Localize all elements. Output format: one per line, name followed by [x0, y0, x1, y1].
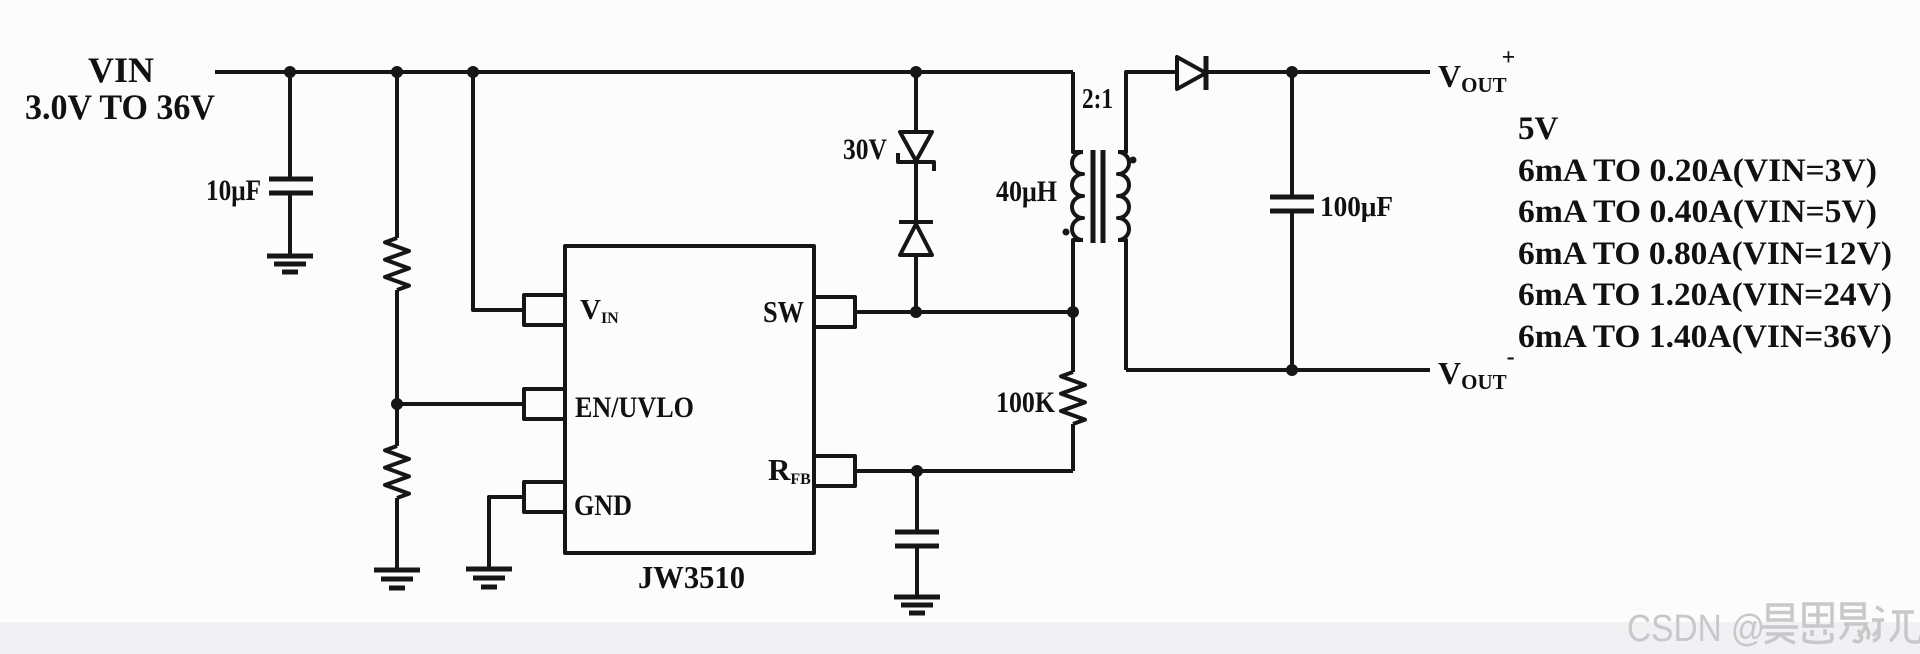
- wire RFB cap branch: [915, 471, 919, 531]
- svg-text:6mA TO 0.80A(VIN=12V): 6mA TO 0.80A(VIN=12V): [1518, 236, 1892, 272]
- svg-text:CSDN @: CSDN @: [1627, 608, 1765, 650]
- wire primary top: [1073, 72, 1083, 152]
- wire R1 to EN node: [395, 290, 399, 404]
- node dot primary/SW: [1067, 306, 1079, 318]
- pin VIN: [524, 295, 565, 325]
- zener D1 30V triangle: [900, 132, 932, 161]
- wire between diodes: [914, 162, 918, 222]
- wire secondary bottom: [1118, 240, 1126, 370]
- node dot R1/top: [391, 66, 403, 78]
- op IC U1 JW3510 box: [565, 246, 814, 553]
- svg-text:6mA TO 1.20A(VIN=24V): 6mA TO 1.20A(VIN=24V): [1518, 277, 1892, 313]
- resistor R1 upper divider: [385, 238, 409, 290]
- node dot VOUT+ cap: [1286, 66, 1298, 78]
- wire 100uF branch bottom: [1290, 211, 1294, 370]
- polarity dot primary: [1063, 229, 1070, 236]
- svg-text:SW: SW: [763, 294, 804, 329]
- wire divider branch top: [395, 70, 399, 238]
- wire diode to VOUT+: [1206, 70, 1430, 74]
- wire 100uF branch top: [1290, 72, 1294, 196]
- node dot C1/top: [284, 66, 296, 78]
- ground under C3: [894, 597, 940, 613]
- svg-text:6mA TO 0.40A(VIN=5V): 6mA TO 0.40A(VIN=5V): [1518, 194, 1877, 230]
- wire 10uF branch bottom: [288, 193, 292, 254]
- wire 100K branch: [1071, 312, 1075, 372]
- wire top rail VIN: [215, 70, 1073, 74]
- svg-text:GND: GND: [574, 489, 632, 522]
- wire EN/UVLO horizontal: [397, 402, 524, 406]
- svg-text:5V: 5V: [1518, 111, 1559, 147]
- resistor R3 100K: [1061, 372, 1085, 424]
- pin SW: [814, 297, 855, 327]
- node dot RFB cap: [911, 465, 923, 477]
- ground under R2: [374, 570, 420, 588]
- ground under GND pin: [466, 569, 512, 587]
- svg-text:40μH: 40μH: [996, 175, 1057, 208]
- svg-text:6mA TO 0.20A(VIN=3V): 6mA TO 0.20A(VIN=3V): [1518, 153, 1877, 189]
- wire bottom VOUT- rail: [1126, 368, 1430, 372]
- wire zener branch top: [914, 72, 918, 132]
- node dot zener/SW: [910, 306, 922, 318]
- pin GND: [524, 482, 565, 512]
- capacitor C1 10uF plates: [269, 177, 313, 182]
- wire SW rail: [855, 310, 1073, 314]
- wire GND pin to ground: [489, 497, 524, 569]
- pin EN/UVLO: [524, 389, 565, 419]
- pin RFB: [814, 456, 855, 486]
- capacitor C3 plates: [895, 530, 939, 535]
- watermark CJK glyph xun: [1872, 607, 1920, 642]
- transformer T1 secondary winding: [1118, 152, 1129, 240]
- watermark CJK glyph yi: [1840, 604, 1869, 642]
- wire VIN pin branch: [473, 70, 524, 310]
- svg-text:2:1: 2:1: [1082, 84, 1113, 115]
- watermark CSDN: [1627, 608, 1765, 650]
- svg-text:JW3510: JW3510: [638, 559, 745, 595]
- svg-text:30V: 30V: [843, 133, 887, 166]
- wire node to R2: [395, 404, 399, 446]
- transformer core lines: [1091, 150, 1096, 243]
- svg-text:100K: 100K: [996, 386, 1056, 419]
- resistor R2 lower divider: [385, 446, 409, 498]
- diode D3 cathode bar: [1204, 56, 1209, 90]
- wire C3 to ground: [915, 546, 919, 596]
- node dot zener/top: [910, 66, 922, 78]
- svg-text:EN/UVLO: EN/UVLO: [575, 391, 694, 424]
- node dot VIN/top: [467, 66, 479, 78]
- svg-text:100μF: 100μF: [1320, 192, 1393, 223]
- wire RFB rail: [855, 469, 1073, 473]
- wire primary bottom: [1073, 240, 1083, 312]
- wire zener branch bottom: [914, 255, 918, 312]
- ground under C1: [267, 256, 313, 272]
- node dot EN junction: [391, 398, 403, 410]
- wire 100K to RFB rail: [1071, 424, 1075, 471]
- svg-text:3.0V TO 36V: 3.0V TO 36V: [25, 87, 215, 127]
- svg-text:10μF: 10μF: [206, 174, 261, 207]
- svg-text:6mA TO 1.40A(VIN=36V): 6mA TO 1.40A(VIN=36V): [1518, 319, 1892, 355]
- wire R2 to ground: [395, 498, 399, 570]
- transformer T1 primary winding: [1072, 152, 1083, 240]
- polarity dot secondary: [1130, 157, 1137, 164]
- watermark CJK glyph en: [1804, 604, 1832, 643]
- svg-text:VIN: VIN: [88, 50, 154, 90]
- zener D1 bar: [898, 153, 934, 171]
- diode D3 output triangle: [1177, 57, 1206, 89]
- watermark CJK glyph hao: [1762, 604, 1920, 643]
- capacitor C2 100uF plates: [1270, 195, 1314, 200]
- diode D2 triangle: [900, 224, 932, 255]
- diode D2 bar: [899, 220, 933, 224]
- wire secondary top: [1118, 72, 1177, 152]
- wire 10uF branch top: [288, 70, 292, 178]
- node dot VOUT- cap: [1286, 364, 1298, 376]
